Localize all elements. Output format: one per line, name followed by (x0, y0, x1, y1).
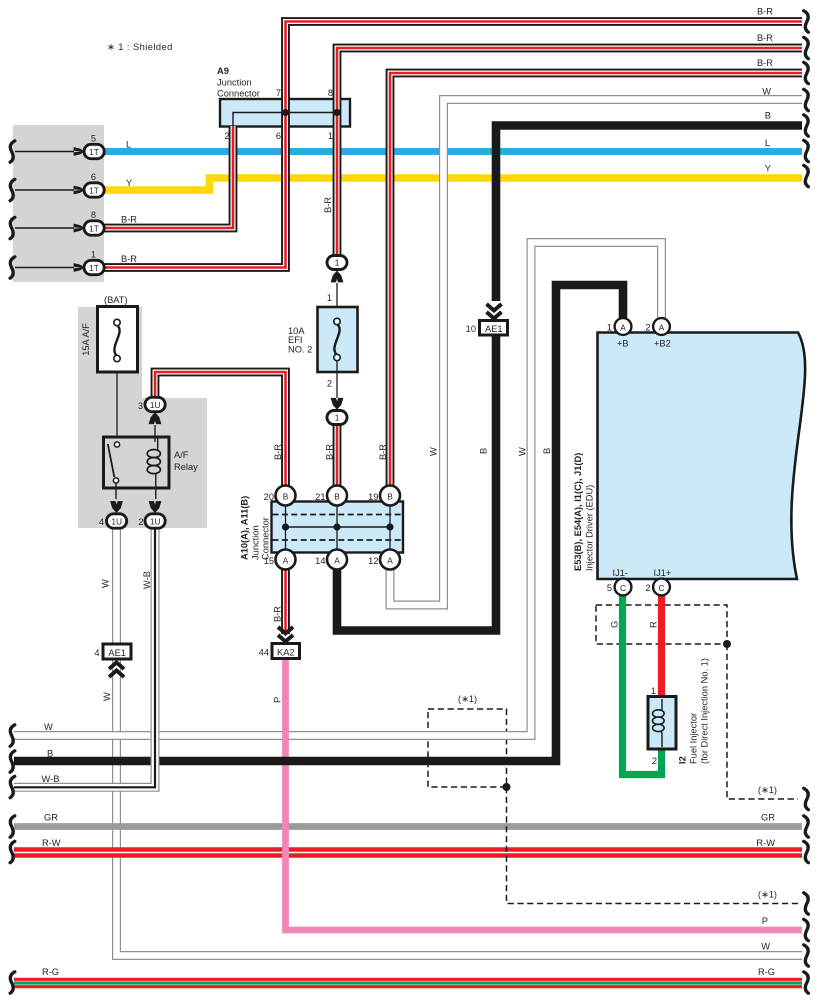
A10/A11 internals (273, 502, 403, 552)
wire W from 12(A) up to right edge (390, 100, 802, 606)
svg-text:4: 4 (99, 517, 104, 527)
svg-text:P: P (273, 697, 283, 703)
svg-text:R-W: R-W (42, 838, 61, 848)
wire break right B-R row1 (804, 11, 809, 32)
svg-text:6: 6 (276, 131, 281, 141)
wire R-G row (14, 978, 802, 988)
wire break left 1T row6 (10, 179, 15, 200)
wire L blue (104, 148, 802, 155)
svg-text:W: W (101, 579, 111, 588)
wire break left W-B row (10, 776, 15, 797)
svg-text:R: R (649, 621, 659, 628)
wire B-R right edge row1 to A9 pin7/6 to 1T pin1 (104, 22, 802, 268)
svg-text:B-R: B-R (273, 606, 283, 622)
svg-text:2: 2 (645, 583, 650, 593)
svg-text:2: 2 (645, 323, 650, 333)
svg-text:GR: GR (44, 813, 58, 823)
connector oval 1 above fuse EFI (327, 256, 347, 319)
svg-text:2: 2 (652, 756, 657, 766)
injector driver EDU E53 box (598, 333, 806, 580)
svg-text:W: W (102, 692, 112, 701)
svg-text:IJ1-: IJ1- (613, 568, 629, 578)
svg-text:21: 21 (315, 492, 325, 502)
svg-text:NO. 2: NO. 2 (288, 345, 312, 355)
svg-text:8: 8 (91, 210, 96, 220)
wire break left W row (10, 725, 15, 746)
svg-text:B: B (765, 111, 771, 121)
svg-text:Junction: Junction (217, 78, 252, 88)
svg-text:Junction: Junction (251, 525, 261, 560)
svg-text:A/F: A/F (174, 450, 189, 460)
connector block 1T gray panel (13, 125, 104, 282)
wire break right shield (*1) upper (804, 788, 809, 809)
svg-text:B-R: B-R (378, 444, 388, 460)
pin circle 15(A) (264, 550, 296, 570)
svg-text:W-B: W-B (142, 571, 152, 589)
connector oval 1 below fuse EFI (327, 361, 347, 425)
svg-text:C: C (620, 583, 626, 593)
A10 vertical labels (240, 496, 271, 560)
svg-text:15A A/F: 15A A/F (81, 323, 91, 356)
svg-text:Y: Y (765, 164, 771, 174)
svg-text:AE1: AE1 (485, 324, 503, 334)
wire GR row (14, 823, 802, 830)
svg-text:(∗1): (∗1) (758, 785, 777, 795)
svg-text:B: B (479, 448, 489, 454)
svg-text:2: 2 (327, 379, 332, 389)
left edge wire labels (42, 722, 61, 977)
wire B-R right edge row2 to A9 pin8/1 to fuse oval (337, 48, 802, 256)
svg-text:1: 1 (335, 258, 340, 268)
svg-text:A: A (334, 556, 340, 566)
wire break right R-W row (804, 841, 809, 862)
svg-text:B: B (334, 492, 340, 502)
pin circle 20(B) (264, 486, 296, 506)
svg-text:10: 10 (466, 324, 476, 334)
svg-text:B: B (283, 492, 289, 502)
svg-text:2: 2 (224, 131, 229, 141)
wire W from +B2 down to left edge (14, 243, 662, 736)
svg-text:B-R: B-R (757, 33, 773, 43)
wire P pink from KA2 to bottom right (286, 658, 803, 930)
svg-text:1T: 1T (89, 147, 99, 157)
wire B-R relay 3(1U) to 20(B) (155, 372, 286, 486)
svg-text:1U: 1U (111, 516, 122, 526)
svg-text:W: W (429, 447, 439, 456)
svg-text:1T: 1T (89, 263, 99, 273)
svg-text:∗ 1 : Shielded: ∗ 1 : Shielded (107, 42, 173, 52)
svg-text:B-R: B-R (121, 215, 137, 225)
connector 4 AE1 (94, 644, 131, 677)
svg-text:A: A (283, 556, 289, 566)
svg-text:(for Direct Injection No. 1): (for Direct Injection No. 1) (700, 658, 710, 764)
wire break left 1T row1 (10, 257, 15, 278)
svg-text:L: L (765, 138, 770, 148)
svg-text:1U: 1U (150, 400, 161, 410)
pin circle 12(A) (368, 550, 400, 570)
A/F relay gray panel (78, 307, 207, 528)
fuse 10A EFI NO.2 (288, 293, 358, 389)
wire B-R fuse lower oval to 21(B) (333, 424, 342, 486)
shield dashed box (*1) left (428, 709, 507, 787)
right edge wire labels (756, 7, 777, 978)
wire break right L row (804, 140, 809, 161)
svg-text:(BAT): (BAT) (104, 295, 128, 305)
svg-text:1: 1 (651, 686, 656, 696)
svg-text:20: 20 (264, 492, 274, 502)
svg-text:E53(B), E54(A), I1(C), J1(D): E53(B), E54(A), I1(C), J1(D) (573, 453, 583, 571)
svg-text:1U: 1U (150, 516, 161, 526)
svg-text:1: 1 (607, 323, 612, 333)
fuse 15A A/F (81, 295, 138, 372)
svg-text:+B2: +B2 (654, 339, 671, 349)
svg-text:B: B (47, 749, 53, 759)
svg-text:1: 1 (335, 413, 340, 423)
wire break right P row (804, 919, 809, 940)
left edge break symbols (10, 141, 15, 993)
svg-text:5: 5 (91, 134, 96, 144)
svg-text:1T: 1T (89, 185, 99, 195)
A9 labels (217, 66, 333, 141)
svg-text:W-B: W-B (42, 774, 60, 784)
svg-text:7: 7 (276, 88, 281, 98)
svg-text:R-W: R-W (756, 838, 775, 848)
svg-text:B-R: B-R (325, 444, 335, 460)
svg-text:I2: I2 (678, 756, 688, 764)
wire break right B row (804, 115, 809, 136)
wire break right R-G row (804, 972, 809, 993)
svg-text:R-G: R-G (42, 967, 59, 977)
fuel injector I2 (648, 686, 676, 766)
wire W-B from relay 2(1U) to left edge (14, 528, 155, 787)
wire break right GR row (804, 816, 809, 837)
svg-text:12: 12 (368, 556, 378, 566)
svg-text:G: G (610, 621, 620, 628)
svg-text:A10(A), A11(B): A10(A), A11(B) (240, 496, 250, 560)
svg-text:1: 1 (328, 131, 333, 141)
wire R red injector (658, 595, 665, 699)
wire Y yellow (104, 178, 802, 190)
wire fuse to relay (116, 372, 118, 437)
svg-text:8: 8 (328, 88, 333, 98)
svg-text:+B: +B (617, 339, 629, 349)
svg-text:W: W (762, 87, 771, 97)
wire R-W row (14, 847, 802, 857)
junction connector A9 box (220, 99, 350, 127)
wire break right W row (804, 89, 809, 110)
svg-text:B: B (387, 492, 393, 502)
wire B-R 15(A) to KA2 (281, 570, 290, 634)
svg-text:B-R: B-R (757, 7, 773, 17)
wire B from +B down to left edge (14, 285, 623, 761)
svg-text:3: 3 (138, 401, 143, 411)
wire break left R-G row (10, 972, 15, 993)
relay pin lines (116, 473, 156, 499)
connector 1T pin 6 row (15, 172, 132, 197)
junction connector A10/A11 box (272, 502, 404, 553)
svg-text:W: W (44, 722, 53, 732)
wire G green injector loop (623, 595, 662, 775)
connector oval 3(1U) (138, 397, 165, 442)
svg-text:Injector Driver (EDU): Injector Driver (EDU) (585, 485, 595, 571)
shield dashed box (*1) around G/R (507, 605, 799, 904)
E53 pin circle 1(A) (607, 318, 632, 335)
connector oval 4(1U) (99, 501, 127, 528)
svg-text:Fuel Injector: Fuel Injector (689, 713, 699, 764)
svg-text:5: 5 (607, 583, 612, 593)
wire break left 1T row5 (10, 141, 15, 162)
wire W from relay 4(1U) through AE1 to bottom right (117, 528, 803, 956)
connector 1T pin 5 row (15, 134, 131, 159)
svg-text:EFI: EFI (288, 335, 302, 345)
shield dashed line to right edge upper (727, 644, 798, 799)
shield dashed line to right edge lower (507, 787, 799, 904)
right edge break symbols (804, 11, 809, 993)
wire break right B-R row2 (804, 37, 809, 58)
svg-text:A: A (620, 323, 626, 333)
svg-text:B-R: B-R (757, 58, 773, 68)
wire break left 1T row8 (10, 217, 15, 238)
wire break left R-W row (10, 841, 15, 862)
svg-text:1T: 1T (89, 223, 99, 233)
wire B-R A9 pin2 to 1T pin8 (104, 126, 233, 228)
svg-text:W: W (761, 942, 770, 952)
svg-text:A9: A9 (217, 66, 229, 76)
svg-text:14: 14 (315, 556, 325, 566)
wire break right shield (*1) lower (804, 893, 809, 914)
svg-text:B-R: B-R (323, 197, 333, 213)
svg-text:GR: GR (761, 813, 775, 823)
connector 1T pin 1 row (15, 250, 137, 275)
relay A/F box (104, 437, 199, 488)
wire break right B-R row3 (804, 62, 809, 83)
svg-text:B: B (542, 448, 552, 454)
svg-text:L: L (126, 140, 131, 150)
connector 1T pin 8 row (15, 210, 137, 235)
wire break right W bottom row (804, 945, 809, 966)
connector 44 KA2 (259, 627, 300, 659)
svg-text:Connector: Connector (261, 517, 271, 560)
svg-text:15: 15 (264, 556, 274, 566)
svg-text:B-R: B-R (121, 254, 137, 264)
svg-text:Y: Y (126, 178, 132, 188)
E53 pin circle 2(C) (645, 579, 670, 596)
wire B-R right edge row3 to 19(B) (390, 73, 802, 486)
connector 10 AE1 (466, 304, 508, 335)
svg-text:2: 2 (138, 517, 143, 527)
pin circle 19(B) (368, 486, 400, 506)
svg-text:IJ1+: IJ1+ (654, 568, 672, 578)
svg-text:19: 19 (368, 492, 378, 502)
pin circle 14(A) (315, 550, 347, 570)
wire break left GR row (10, 816, 15, 837)
svg-text:1: 1 (91, 250, 96, 260)
shield junction dot right (723, 640, 731, 648)
pin circle 21(B) (315, 486, 347, 506)
svg-text:4: 4 (94, 648, 99, 658)
svg-text:B-R: B-R (273, 444, 283, 460)
E53 pin circle 2(A) (645, 318, 670, 335)
svg-text:Relay: Relay (174, 462, 198, 472)
svg-text:A: A (659, 323, 665, 333)
svg-text:(∗1): (∗1) (458, 694, 477, 704)
svg-text:6: 6 (91, 172, 96, 182)
svg-text:P: P (762, 916, 768, 926)
wire B from 14(A) via 10 AE1 to right edge (496, 126, 802, 302)
svg-text:AE1: AE1 (108, 648, 126, 658)
svg-text:C: C (659, 583, 665, 593)
svg-text:1: 1 (327, 293, 332, 303)
svg-text:KA2: KA2 (277, 648, 295, 658)
wire break right Y row (804, 165, 809, 186)
svg-text:44: 44 (259, 648, 269, 658)
connector oval 2(1U) (138, 501, 165, 528)
svg-text:A: A (387, 556, 393, 566)
junction connector A9 internals (233, 109, 341, 126)
svg-text:W: W (518, 447, 528, 456)
svg-text:R-G: R-G (758, 967, 775, 977)
wire break left B row (10, 751, 15, 772)
shield junction dot left (503, 783, 511, 791)
E53 pin circle 5(C) (607, 579, 632, 596)
svg-text:(∗1): (∗1) (758, 890, 777, 900)
svg-text:Connector: Connector (217, 89, 260, 99)
